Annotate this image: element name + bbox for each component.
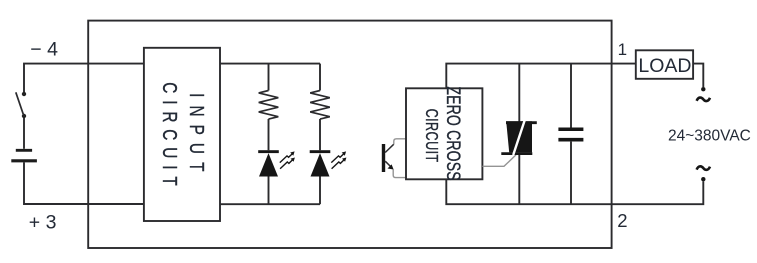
svg-text:24~380VAC: 24~380VAC: [668, 127, 751, 144]
svg-text:LOAD: LOAD: [638, 55, 691, 77]
wire: branch 2 upper: [319, 64, 321, 91]
resistor R1: [259, 91, 279, 120]
wire: triac MT1 to bottom rail: [518, 154, 520, 205]
wire: terminal 1 to LOAD: [612, 63, 636, 65]
svg-text:1: 1: [618, 40, 627, 59]
wire: LED D1 to bottom rail: [268, 177, 270, 205]
wire: LED branches return (bottom rail): [220, 203, 320, 205]
wire: AC source bottom to terminal 2: [612, 181, 704, 204]
wire: LED D2 to bottom rail: [319, 177, 321, 205]
triac T1: [501, 120, 537, 155]
LED D2 light arrows: [331, 151, 346, 168]
switch S1: [16, 92, 26, 118]
LED D2: [310, 150, 331, 176]
wire: triac MT2 to top rail: [518, 64, 520, 122]
wire: zero cross top to AC line rail: [446, 64, 611, 89]
svg-text:− 4: − 4: [30, 38, 58, 60]
wire: DC negative terminal rail (top-left): [24, 64, 144, 92]
wire: snubber capacitor to bottom rail: [570, 142, 572, 205]
wire: Q1 emitter to zero cross block (gray): [393, 170, 406, 178]
LOAD box: [636, 50, 693, 79]
wire: branch 1 upper: [268, 64, 270, 91]
zero cross block: [406, 88, 482, 179]
svg-text:ZERO CROSS: ZERO CROSS: [442, 86, 464, 180]
svg-text:CIRCUIT: CIRCUIT: [158, 82, 181, 186]
AC source symbol bottom: [697, 166, 710, 170]
wire: battery to DC positive rail (bottom-left): [24, 162, 144, 204]
SSR outer case: [88, 21, 611, 248]
AC terminal dot top: [701, 87, 705, 91]
wire: R2 to LED D2: [319, 119, 321, 150]
svg-text:+ 3: + 3: [29, 211, 57, 233]
svg-text:2: 2: [617, 210, 627, 231]
AC source symbol top: [697, 98, 710, 102]
wire: R1 to LED D1: [268, 119, 270, 150]
svg-text:INPUT: INPUT: [185, 93, 208, 171]
battery B1: [11, 150, 37, 161]
wire: zero cross bottom to AC return rail: [446, 179, 611, 204]
resistor R2: [310, 91, 330, 120]
AC terminal dot bottom: [701, 177, 705, 181]
wire: Q1 collector to zero cross block (gray): [394, 139, 406, 144]
capacitor C1: [558, 129, 583, 139]
wire: LOAD to AC source top: [693, 64, 703, 87]
input circuit block: [144, 48, 220, 221]
LED D1: [258, 150, 279, 176]
wire: switch to battery: [23, 118, 25, 149]
wire: input block to LED branches (top rail): [220, 63, 320, 65]
svg-text:CIRCUIT: CIRCUIT: [421, 109, 441, 163]
wire: triac gate from zero cross (gray): [482, 155, 516, 166]
phototransistor Q1: [382, 144, 394, 172]
LED D1 light arrows: [280, 151, 295, 168]
wire: snubber capacitor to top rail: [570, 64, 572, 128]
